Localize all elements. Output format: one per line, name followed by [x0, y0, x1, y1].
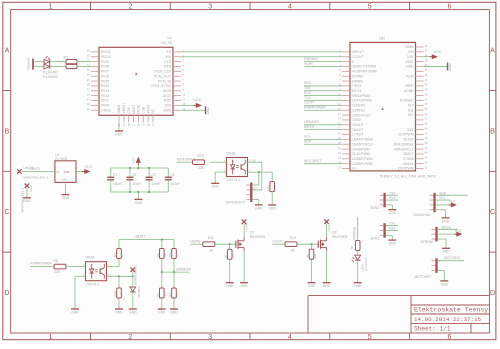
svg-text:MOSI: MOSI: [137, 105, 141, 114]
svg-text:R4: R4: [168, 293, 172, 297]
svg-text:PAIRING: PAIRING: [304, 57, 318, 61]
svg-text:R2: R2: [64, 55, 68, 59]
svg-text:C1: C1: [113, 173, 117, 177]
svg-text:C: C: [490, 209, 495, 216]
svg-text:IRLR2905: IRLR2905: [250, 235, 265, 239]
svg-text:PWMPOWER2: PWMPOWER2: [134, 264, 138, 285]
svg-text:19/A5/T/SCL0: 19/A5/T/SCL0: [352, 142, 373, 146]
svg-text:2: 2: [352, 60, 354, 64]
svg-text:TLLR4400: TLLR4400: [43, 70, 58, 74]
svg-text:R3: R3: [224, 254, 228, 258]
svg-text:VUSB: VUSB: [405, 45, 415, 49]
svg-text:R-78XX: R-78XX: [55, 157, 68, 161]
svg-text:A: A: [490, 47, 495, 54]
svg-text:PIO4: PIO4: [101, 84, 109, 88]
svg-text:1: 1: [49, 4, 53, 11]
svg-text:VBUS+: VBUS+: [122, 103, 126, 114]
svg-text:15/A1/T: 15/A1/T: [352, 123, 364, 127]
svg-text:GND: GND: [442, 219, 450, 223]
svg-text:D: D: [4, 290, 9, 297]
svg-text:PIO0: PIO0: [101, 104, 109, 108]
svg-text:B: B: [5, 128, 10, 135]
svg-text:1K: 1K: [175, 254, 179, 258]
svg-text:GND: GND: [23, 199, 31, 203]
svg-text:10K: 10K: [313, 254, 317, 259]
svg-text:6/PWM: 6/PWM: [352, 79, 363, 83]
svg-text:A14/DAC: A14/DAC: [400, 99, 414, 103]
svg-text:VBUS-: VBUS-: [146, 104, 150, 114]
svg-text:GND: GND: [240, 284, 248, 288]
svg-text:R8: R8: [54, 259, 58, 263]
svg-text:D: D: [490, 290, 495, 297]
svg-text:1K: 1K: [209, 248, 214, 252]
svg-text:100nF: 100nF: [151, 182, 160, 186]
svg-text:4: 4: [288, 334, 292, 341]
svg-text:GND: GND: [226, 284, 234, 288]
svg-text:8/TX3: 8/TX3: [352, 89, 361, 93]
svg-text:NC: NC: [151, 108, 155, 113]
svg-text:GND: GND: [448, 63, 452, 71]
svg-text:A11: A11: [408, 108, 414, 112]
svg-text:PCM_CLK: PCM_CLK: [154, 70, 171, 74]
svg-text:B: B: [490, 128, 495, 135]
svg-text:TX3: TX3: [304, 86, 310, 90]
svg-text:GND: GND: [115, 132, 123, 136]
svg-text:330: 330: [199, 166, 205, 170]
svg-text:MISO: MISO: [132, 105, 136, 114]
svg-text:Q1: Q1: [250, 231, 255, 235]
svg-text:5V: 5V: [253, 186, 257, 190]
svg-text:IRLR2905: IRLR2905: [332, 235, 347, 239]
svg-text:26/A15: 26/A15: [403, 162, 414, 166]
svg-text:VCC: VCC: [449, 199, 456, 203]
svg-text:7/RX3: 7/RX3: [352, 84, 361, 88]
svg-text:TX2: TX2: [389, 191, 395, 195]
svg-text:14.06.2014 22:37:15: 14.06.2014 22:37:15: [414, 316, 482, 323]
svg-text:R7: R7: [156, 293, 160, 297]
svg-text:3: 3: [208, 4, 212, 11]
svg-text:PIO2: PIO2: [101, 94, 109, 98]
svg-text:20/A6/PWM: 20/A6/PWM: [352, 147, 370, 151]
svg-text:LICHT: LICHT: [327, 223, 331, 232]
svg-text:14/A0: 14/A0: [352, 118, 361, 122]
svg-text:18/A4/T/SDA0: 18/A4/T/SDA0: [352, 138, 373, 142]
svg-text:GND1: GND1: [117, 104, 121, 113]
svg-text:R9: R9: [113, 253, 117, 257]
svg-text:31/A20: 31/A20: [403, 138, 414, 142]
svg-text:TX2: TX2: [304, 96, 310, 100]
svg-text:GND: GND: [269, 206, 277, 210]
svg-text:MOTORST: MOTORST: [415, 275, 432, 279]
svg-text:GND: GND: [389, 242, 397, 246]
svg-text:R11: R11: [208, 236, 214, 240]
svg-text:LICHT: LICHT: [273, 239, 284, 243]
svg-text:VCC: VCC: [131, 156, 135, 163]
svg-text:GND: GND: [406, 65, 414, 69]
svg-text:AIO1: AIO1: [163, 94, 171, 98]
svg-text:4: 4: [288, 4, 292, 11]
svg-text:OK2B: OK2B: [227, 151, 237, 155]
svg-text:RST: RST: [164, 99, 172, 103]
svg-text:3,3V: 3,3V: [64, 170, 70, 174]
svg-text:5: 5: [368, 334, 372, 341]
svg-text:GND: GND: [163, 108, 171, 112]
svg-text:PWMPOWER: PWMPOWER: [30, 262, 52, 266]
svg-text:IN: IN: [56, 170, 59, 174]
svg-text:6: 6: [448, 4, 452, 11]
svg-text:1K: 1K: [163, 293, 167, 297]
svg-text:LICHT: LICHT: [304, 101, 315, 105]
svg-text:CNY74-2: CNY74-2: [86, 282, 100, 286]
svg-text:1K: 1K: [175, 293, 179, 297]
svg-text:6: 6: [448, 334, 452, 341]
svg-text:1N4004: 1N4004: [137, 287, 141, 298]
svg-text:R15: R15: [198, 154, 204, 158]
svg-text:11/MOSI: 11/MOSI: [352, 104, 365, 108]
svg-text:GND: GND: [442, 250, 450, 254]
svg-text:PIO6: PIO6: [101, 74, 109, 78]
svg-text:RX2: RX2: [304, 91, 311, 95]
svg-text:PIO3: PIO3: [101, 89, 109, 93]
svg-text:VBAT: VBAT: [405, 60, 413, 64]
svg-text:R1: R1: [350, 245, 354, 249]
svg-text:SDA: SDA: [439, 191, 447, 195]
svg-text:R5: R5: [306, 254, 310, 258]
svg-text:A12: A12: [408, 104, 414, 108]
svg-text:RX2: RX2: [389, 196, 396, 200]
svg-text:PIO1: PIO1: [101, 99, 109, 103]
svg-text:GND: GND: [255, 206, 263, 210]
svg-text:GND: GND: [206, 107, 210, 115]
svg-text:HUPE: HUPE: [245, 223, 249, 231]
svg-text:C4: C4: [171, 173, 175, 177]
svg-text:GND: GND: [170, 310, 178, 314]
svg-text:RX1: RX1: [389, 227, 396, 231]
svg-text:1K: 1K: [120, 293, 124, 297]
svg-text:R6: R6: [156, 253, 160, 257]
svg-text:U$1: U$1: [379, 36, 385, 40]
svg-text:VIN: VIN: [408, 50, 414, 54]
svg-text:GND: GND: [308, 284, 316, 288]
svg-text:100nF: 100nF: [171, 182, 180, 186]
svg-text:5/PWM: 5/PWM: [352, 74, 363, 78]
svg-text:PCM_OUT: PCM_OUT: [154, 74, 172, 78]
svg-text:1K: 1K: [290, 248, 295, 252]
svg-text:RX: RX: [166, 55, 172, 59]
svg-text:27/A16: 27/A16: [403, 157, 414, 161]
svg-text:GND: GND: [323, 284, 331, 288]
svg-text:10/TX2/PWM: 10/TX2/PWM: [352, 99, 372, 103]
svg-text:GND2: GND2: [101, 108, 111, 112]
svg-text:23/A9/T/PWM: 23/A9/T/PWM: [352, 162, 373, 166]
svg-text:CTS: CTS: [164, 60, 172, 64]
svg-text:CNY74-2: CNY74-2: [227, 178, 241, 182]
svg-text:AREF: AREF: [405, 84, 414, 88]
svg-text:GND: GND: [62, 196, 70, 200]
svg-text:TEENSY_3.2_ALL_PINS_AND_PADS: TEENSY_3.2_ALL_PINS_AND_PADS: [380, 174, 437, 178]
svg-text:GND: GND: [135, 201, 143, 205]
svg-text:28/A17: 28/A17: [403, 152, 414, 156]
svg-text:R10: R10: [113, 291, 117, 297]
svg-text:25/T/PWM: 25/T/PWM: [398, 167, 414, 171]
svg-text:1K: 1K: [120, 254, 124, 258]
svg-text:CSB: CSB: [142, 106, 146, 114]
svg-text:12/MISO: 12/MISO: [352, 108, 365, 112]
svg-text:OK2A: OK2A: [86, 256, 96, 260]
svg-text:33/T: 33/T: [407, 128, 414, 132]
svg-text:0/RX1/T: 0/RX1/T: [352, 50, 364, 54]
svg-text:PCM_SYNC: PCM_SYNC: [152, 84, 172, 88]
svg-text:24: 24: [352, 167, 356, 171]
svg-text:17/A3/T: 17/A3/T: [352, 133, 364, 137]
svg-text:PCM_IN: PCM_IN: [158, 79, 172, 83]
svg-text:2: 2: [128, 4, 132, 11]
svg-text:22/A8/T/PWM: 22/A8/T/PWM: [352, 157, 373, 161]
svg-text:3.3V: 3.3V: [407, 55, 415, 59]
svg-text:SCL: SCL: [304, 135, 311, 139]
svg-text:GNDBAD: GNDBAD: [27, 57, 31, 71]
svg-text:UBMESS: UBMESS: [176, 267, 191, 271]
svg-text:C: C: [4, 209, 9, 216]
svg-text:GND: GND: [71, 310, 79, 314]
svg-text:PIO10: PIO10: [101, 55, 111, 59]
svg-text:RX3: RX3: [304, 81, 311, 85]
svg-text:3V0: 3V0: [165, 104, 171, 108]
svg-text:PIO8: PIO8: [101, 65, 109, 69]
svg-text:VCC: VCC: [434, 50, 442, 54]
svg-text:5: 5: [368, 4, 372, 11]
svg-text:UBATT: UBATT: [135, 235, 147, 239]
svg-text:SER2: SER2: [370, 206, 379, 210]
svg-text:UBATT: UBATT: [30, 167, 40, 171]
svg-text:4/CAN-RX-PWM: 4/CAN-RX-PWM: [352, 70, 377, 74]
svg-text:PAIRING: PAIRING: [353, 226, 357, 239]
svg-text:MESS: MESS: [441, 225, 451, 229]
svg-text:SER3: SER3: [370, 237, 379, 241]
svg-text:C3: C3: [151, 173, 155, 177]
svg-text:GND: GND: [441, 282, 449, 286]
svg-text:MOTORST2: MOTORST2: [226, 200, 245, 204]
svg-text:32/T/PWM: 32/T/PWM: [398, 133, 414, 137]
svg-text:HUPE: HUPE: [191, 239, 201, 243]
svg-text:GND: GND: [389, 211, 397, 215]
svg-text:1/TX1/T: 1/TX1/T: [352, 55, 364, 59]
svg-text:GND: GND: [158, 310, 166, 314]
svg-text:2: 2: [128, 334, 132, 341]
svg-text:HUPE: HUPE: [304, 62, 314, 66]
svg-text:16/A2/T: 16/A2/T: [352, 128, 364, 132]
svg-text:13/SCK/LED: 13/SCK/LED: [352, 113, 371, 117]
svg-text:SCL: SCL: [439, 196, 446, 200]
svg-text:VCC: VCC: [455, 229, 462, 233]
svg-text:C2: C2: [132, 173, 136, 177]
svg-text:30/A19/SDA1: 30/A19/SDA1: [394, 142, 414, 146]
svg-text:NUNCHUK: NUNCHUK: [414, 213, 432, 217]
svg-text:GND: GND: [212, 185, 220, 189]
svg-text:TLLG4400: TLLG4400: [364, 257, 368, 272]
svg-text:100nF: 100nF: [132, 182, 141, 186]
svg-text:Q2: Q2: [332, 231, 337, 235]
svg-text:HC_05: HC_05: [161, 41, 172, 45]
svg-text:1K: 1K: [163, 254, 167, 258]
svg-text:Elektroskate Teensy: Elektroskate Teensy: [414, 307, 488, 314]
svg-text:WIREPAD2,54/1,0: WIREPAD2,54/1,0: [24, 175, 49, 179]
svg-text:9/RX2/PWM: 9/RX2/PWM: [352, 94, 370, 98]
svg-text:CLK: CLK: [127, 106, 131, 113]
svg-text:STROM: STROM: [421, 240, 433, 244]
svg-text:330: 330: [55, 270, 61, 274]
svg-text:GND: GND: [61, 178, 67, 182]
svg-text:VCC: VCC: [194, 98, 202, 102]
svg-text:1: 1: [49, 334, 53, 341]
svg-text:MOTORST: MOTORST: [304, 159, 322, 163]
svg-text:U1: U1: [168, 36, 173, 40]
svg-text:A: A: [5, 47, 10, 54]
svg-text:MOTORST: MOTORST: [444, 256, 460, 260]
svg-text:TX: TX: [167, 50, 172, 54]
svg-text:10K: 10K: [231, 253, 235, 258]
svg-text:R3: R3: [168, 253, 172, 257]
svg-text:PWMPOWER: PWMPOWER: [304, 106, 326, 110]
svg-text:PGM: PGM: [406, 74, 414, 78]
svg-text:A10: A10: [408, 113, 414, 117]
svg-text:PIO7: PIO7: [101, 70, 109, 74]
svg-text:VCC: VCC: [85, 165, 93, 169]
svg-text:Sheet: 1/1: Sheet: 1/1: [414, 326, 451, 333]
svg-text:TLLO4400: TLLO4400: [43, 75, 58, 79]
svg-text:PIO9: PIO9: [101, 60, 109, 64]
svg-text:R16: R16: [266, 185, 270, 191]
svg-text:MESS: MESS: [304, 125, 315, 129]
svg-text:SDA: SDA: [304, 140, 312, 144]
svg-text:PIO5: PIO5: [101, 79, 109, 83]
svg-text:100nF: 100nF: [113, 182, 122, 186]
svg-text:UBMESS: UBMESS: [304, 120, 319, 124]
svg-text:AGND: AGND: [404, 89, 414, 93]
svg-text:GND: GND: [129, 310, 137, 314]
svg-text:21/A7/PWM: 21/A7/PWM: [352, 152, 370, 156]
svg-text:PIO11: PIO11: [101, 50, 111, 54]
svg-text:AIO0: AIO0: [163, 89, 171, 93]
svg-text:R12: R12: [290, 236, 296, 240]
svg-text:3/CAN-TX/PWM: 3/CAN-TX/PWM: [352, 65, 376, 69]
svg-text:GND: GND: [115, 310, 123, 314]
svg-text:3: 3: [208, 334, 212, 341]
svg-text:RTS: RTS: [164, 65, 172, 69]
svg-text:GND: GND: [29, 184, 33, 192]
svg-text:TX1: TX1: [389, 222, 395, 226]
svg-text:29/A18/SCL1: 29/A18/SCL1: [394, 147, 414, 151]
svg-text:GND: GND: [354, 284, 362, 288]
